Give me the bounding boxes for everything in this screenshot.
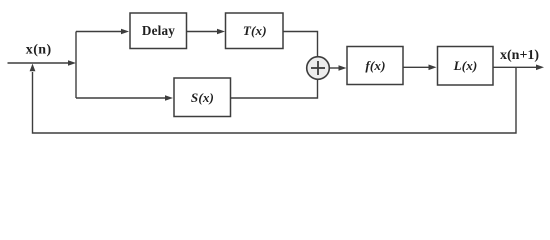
svg-text:Delay: Delay: [142, 23, 175, 38]
svg-text:L(x): L(x): [453, 58, 478, 73]
svg-text:x(n): x(n): [26, 43, 52, 58]
svg-text:S(x): S(x): [191, 90, 214, 105]
svg-text:T(x): T(x): [243, 23, 267, 38]
svg-text:x(n+1): x(n+1): [500, 48, 539, 63]
svg-text:f(x): f(x): [365, 58, 385, 73]
